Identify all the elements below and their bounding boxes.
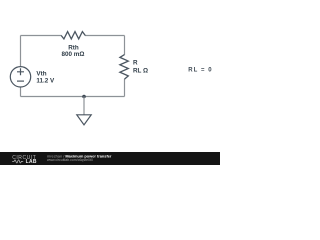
footer black bar	[0, 152, 220, 165]
svg-text:LAB: LAB	[26, 159, 37, 165]
junction dot on bottom rail	[82, 95, 86, 99]
svg-text:11.2 V: 11.2 V	[36, 78, 55, 85]
voltage source minus sign	[17, 80, 24, 82]
wire: left vertical from top rail down to Vth top terminal	[20, 36, 22, 68]
svg-text:www.circuitlab.com/c6qste0t0: www.circuitlab.com/c6qste0t0	[47, 158, 93, 162]
footer logo wave glyph	[12, 160, 23, 163]
wire: left vertical from Vth bottom terminal down to bottom rail	[20, 87, 22, 97]
svg-text:R: R	[133, 59, 138, 66]
wire: bottom rail	[21, 96, 125, 98]
wire: top rail right segment (Rth right terminal to right corner)	[85, 35, 125, 37]
voltage source V1 (Vth) circle body	[10, 67, 30, 87]
svg-text:RL = 0: RL = 0	[188, 67, 212, 73]
resistor Rth (horizontal zigzag)	[61, 32, 85, 39]
wire: ground stub	[83, 97, 85, 115]
wire: top rail left segment (corner to Rth left terminal)	[21, 35, 62, 37]
svg-text:RL Ω: RL Ω	[133, 68, 148, 75]
svg-text:Vth: Vth	[36, 70, 46, 77]
svg-text:800 mΩ: 800 mΩ	[62, 51, 85, 58]
wire: right vertical from top rail down to RL top terminal	[124, 36, 126, 55]
resistor RL (vertical zigzag)	[120, 55, 128, 80]
wire: right vertical from RL bottom terminal down to bottom rail	[124, 79, 126, 97]
ground symbol (open triangle)	[77, 115, 91, 125]
voltage source plus sign	[17, 68, 24, 75]
